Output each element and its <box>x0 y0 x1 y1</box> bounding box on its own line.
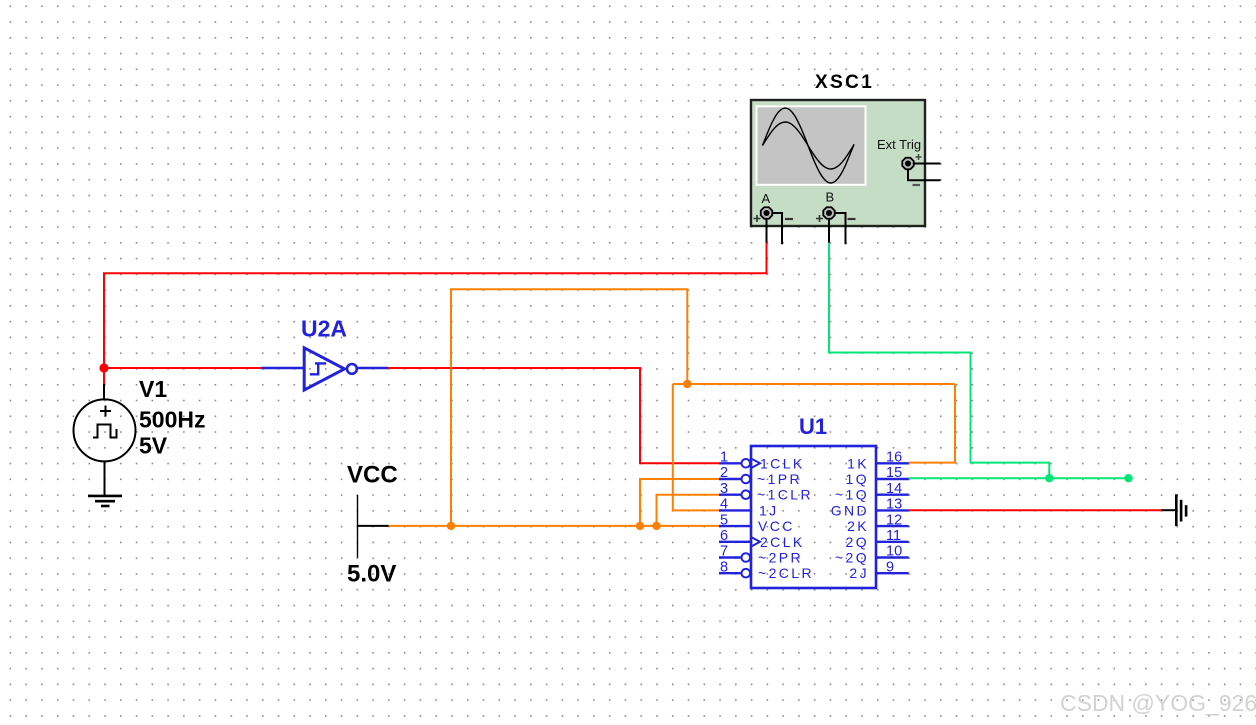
wire red net: node to inverter input <box>104 367 262 369</box>
svg-text:3: 3 <box>720 481 728 497</box>
wire scope B plus lead (black upper part) <box>828 217 830 243</box>
wire ground lead (black) <box>1161 509 1175 511</box>
U1 pin7 bubble <box>742 553 751 562</box>
wire scope A minus stub (black) <box>767 213 783 244</box>
Ext Trig terminal <box>902 158 913 169</box>
wire V1 bottom terminal stub (black) <box>104 461 106 495</box>
svg-text:5: 5 <box>720 512 728 528</box>
svg-text:~2PR: ~2PR <box>758 550 803 566</box>
svg-text:Ext Trig: Ext Trig <box>877 137 921 152</box>
wire orange horizontal through node to right <box>673 383 955 385</box>
op-amp U2A inverter (Schmitt trigger NOT gate) <box>304 348 357 390</box>
svg-text:1J: 1J <box>759 502 779 518</box>
node junction green at (1049,478) <box>1045 474 1053 482</box>
U1 pin1 clock arrow <box>751 459 760 469</box>
svg-text:U2A: U2A <box>301 316 347 342</box>
scope waveform small sine <box>763 122 855 169</box>
svg-text:~1Q: ~1Q <box>835 487 869 503</box>
svg-text:U1: U1 <box>799 414 827 439</box>
hysteresis symbol inside U2A <box>310 363 326 374</box>
U1 pin labels left column <box>757 455 814 581</box>
node junction at V1 top (red dot) <box>99 363 108 372</box>
terminal B plus sign <box>816 215 823 222</box>
svg-text:10: 10 <box>886 544 902 560</box>
wire orange VCC rail horizontal <box>389 525 719 527</box>
svg-text:5V: 5V <box>139 433 168 459</box>
wire green horizontal from pin15 <box>909 477 1129 479</box>
U1 left pin stubs <box>719 463 751 573</box>
wire orange branch up-over-down loop to node <box>451 289 687 526</box>
source V1 <box>74 399 136 461</box>
svg-text:2: 2 <box>720 465 728 481</box>
terminal A minus sign <box>785 218 793 220</box>
node junction orange at (687,384) <box>683 380 691 388</box>
svg-text:8: 8 <box>720 559 728 575</box>
svg-text:5.0V: 5.0V <box>347 561 396 588</box>
svg-text:11: 11 <box>886 528 901 544</box>
svg-text:GND: GND <box>831 502 869 518</box>
node junction orange at VCC rail x656.5 <box>652 522 660 530</box>
Ext Trig plus sign <box>916 154 922 160</box>
oscilloscope screen <box>757 106 866 185</box>
chip U1 body <box>751 446 876 588</box>
oscilloscope XSC1 body <box>751 100 925 226</box>
svg-text:12: 12 <box>886 512 902 528</box>
svg-text:9: 9 <box>886 559 894 575</box>
svg-text:2CLK: 2CLK <box>760 534 805 550</box>
svg-text:VCC: VCC <box>758 518 795 534</box>
power VCC symbol <box>358 495 389 558</box>
wire Ext Trig minus lead <box>908 170 941 181</box>
U1 pin numbers right <box>886 450 902 576</box>
wire red net: inverter output to U1 pin1 <box>388 368 719 463</box>
svg-text:CSDN @YOG_926: CSDN @YOG_926 <box>1060 690 1256 716</box>
wire red net: scope A to V1 node <box>104 243 767 384</box>
svg-text:A: A <box>762 191 771 206</box>
wire orange branch to U1 pin16 1K <box>909 384 955 463</box>
ground symbol (right, rotated) <box>1176 494 1186 526</box>
svg-text:14: 14 <box>886 481 902 497</box>
wire orange branch to U1 pin4 1J <box>673 384 719 510</box>
Ext Trig minus sign <box>913 184 921 186</box>
svg-text:2K: 2K <box>847 518 869 534</box>
svg-text:V1: V1 <box>139 376 167 402</box>
svg-text:15: 15 <box>886 465 902 481</box>
node junction orange at VCC rail x451 <box>447 522 455 530</box>
svg-text:VCC: VCC <box>347 462 398 489</box>
svg-text:1CLK: 1CLK <box>760 455 805 471</box>
scope terminal B <box>823 207 834 218</box>
svg-text:~1CLR: ~1CLR <box>757 487 813 503</box>
U1 pin3 bubble <box>742 490 751 499</box>
svg-text:4: 4 <box>720 497 728 513</box>
svg-text:6: 6 <box>720 528 728 544</box>
scope waveform big sine <box>763 108 855 183</box>
terminal B minus sign <box>848 218 856 220</box>
svg-text:~1PR: ~1PR <box>757 471 802 487</box>
wire green net: scope B to U1 pin15 1Q <box>829 243 1049 479</box>
node green wire end dot <box>1124 474 1132 482</box>
wire Ext Trig plus lead <box>914 163 941 165</box>
U1 pin1 bubble <box>742 459 751 468</box>
terminal A plus sign <box>754 215 761 222</box>
U1 pin6 clock arrow <box>751 537 760 547</box>
svg-text:~2CLR: ~2CLR <box>758 565 814 581</box>
U1 pin labels right column <box>831 455 869 581</box>
svg-text:7: 7 <box>720 544 728 560</box>
wire inverter input stub (blue) <box>262 367 305 370</box>
wire inverter output stub (blue) <box>357 367 388 370</box>
ground symbol (below V1) <box>88 496 122 506</box>
svg-text:500Hz: 500Hz <box>139 407 205 433</box>
svg-text:1: 1 <box>720 450 728 466</box>
wire scope B minus stub (black) <box>829 213 846 244</box>
svg-text:2Q: 2Q <box>846 534 869 550</box>
svg-text:13: 13 <box>886 497 902 513</box>
wire orange branch to U1 pin2 ~1PR <box>640 479 719 526</box>
wire scope A plus lead (black upper part) <box>766 217 768 243</box>
wire V1 top terminal stub (black) <box>103 384 105 400</box>
svg-text:XSC1: XSC1 <box>815 72 874 93</box>
wire red net: U1 pin13 GND to ground <box>909 509 1161 511</box>
svg-text:16: 16 <box>886 450 902 466</box>
U1 pin8 bubble <box>742 569 751 578</box>
scope terminal A <box>761 207 772 218</box>
U1 pin2 bubble <box>742 475 751 484</box>
svg-text:~2Q: ~2Q <box>835 550 869 566</box>
wire orange branch to U1 pin3 ~1CLR <box>657 495 720 526</box>
node junction orange at VCC rail x640 <box>636 522 644 530</box>
U1 pin numbers left <box>720 450 728 576</box>
svg-text:B: B <box>826 190 835 205</box>
svg-text:1Q: 1Q <box>846 471 869 487</box>
svg-text:2J: 2J <box>849 565 869 581</box>
U1 right pin stubs <box>876 463 909 573</box>
svg-text:1K: 1K <box>847 455 869 471</box>
